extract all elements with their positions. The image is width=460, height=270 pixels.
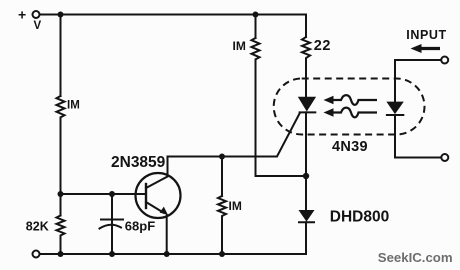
svg-text:IM: IM bbox=[233, 39, 246, 53]
svg-text:82K: 82K bbox=[26, 220, 49, 234]
svg-text:SeekIC.com: SeekIC.com bbox=[378, 250, 453, 265]
svg-text:IM: IM bbox=[229, 199, 242, 213]
svg-text:68pF: 68pF bbox=[125, 218, 155, 233]
svg-text:IM: IM bbox=[67, 100, 80, 112]
svg-text:2N3859: 2N3859 bbox=[111, 154, 166, 171]
svg-text:+: + bbox=[18, 7, 26, 23]
svg-text:INPUT: INPUT bbox=[406, 28, 447, 42]
svg-text:22: 22 bbox=[314, 38, 331, 54]
svg-text:DHD800: DHD800 bbox=[330, 209, 389, 226]
svg-text:4N39: 4N39 bbox=[332, 139, 368, 155]
svg-text:V: V bbox=[34, 20, 42, 32]
